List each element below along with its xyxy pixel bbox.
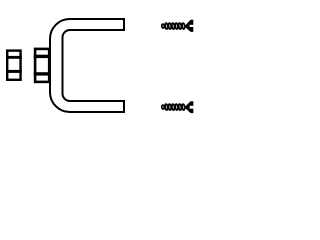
nut N2 (right, against bracket): [34, 49, 50, 82]
nut N1 (left): [6, 51, 22, 80]
head: [184, 101, 193, 113]
head: [184, 20, 193, 32]
screw S2 (bottom right, flat-head machine screw): [161, 101, 193, 113]
clevis bracket (C-channel side view): [50, 19, 124, 112]
slot: [190, 106, 194, 109]
slot: [190, 25, 194, 27]
screw S1 (top right, flat-head machine screw): [161, 20, 193, 32]
thread coils: [161, 23, 185, 29]
thread coils: [161, 104, 185, 110]
